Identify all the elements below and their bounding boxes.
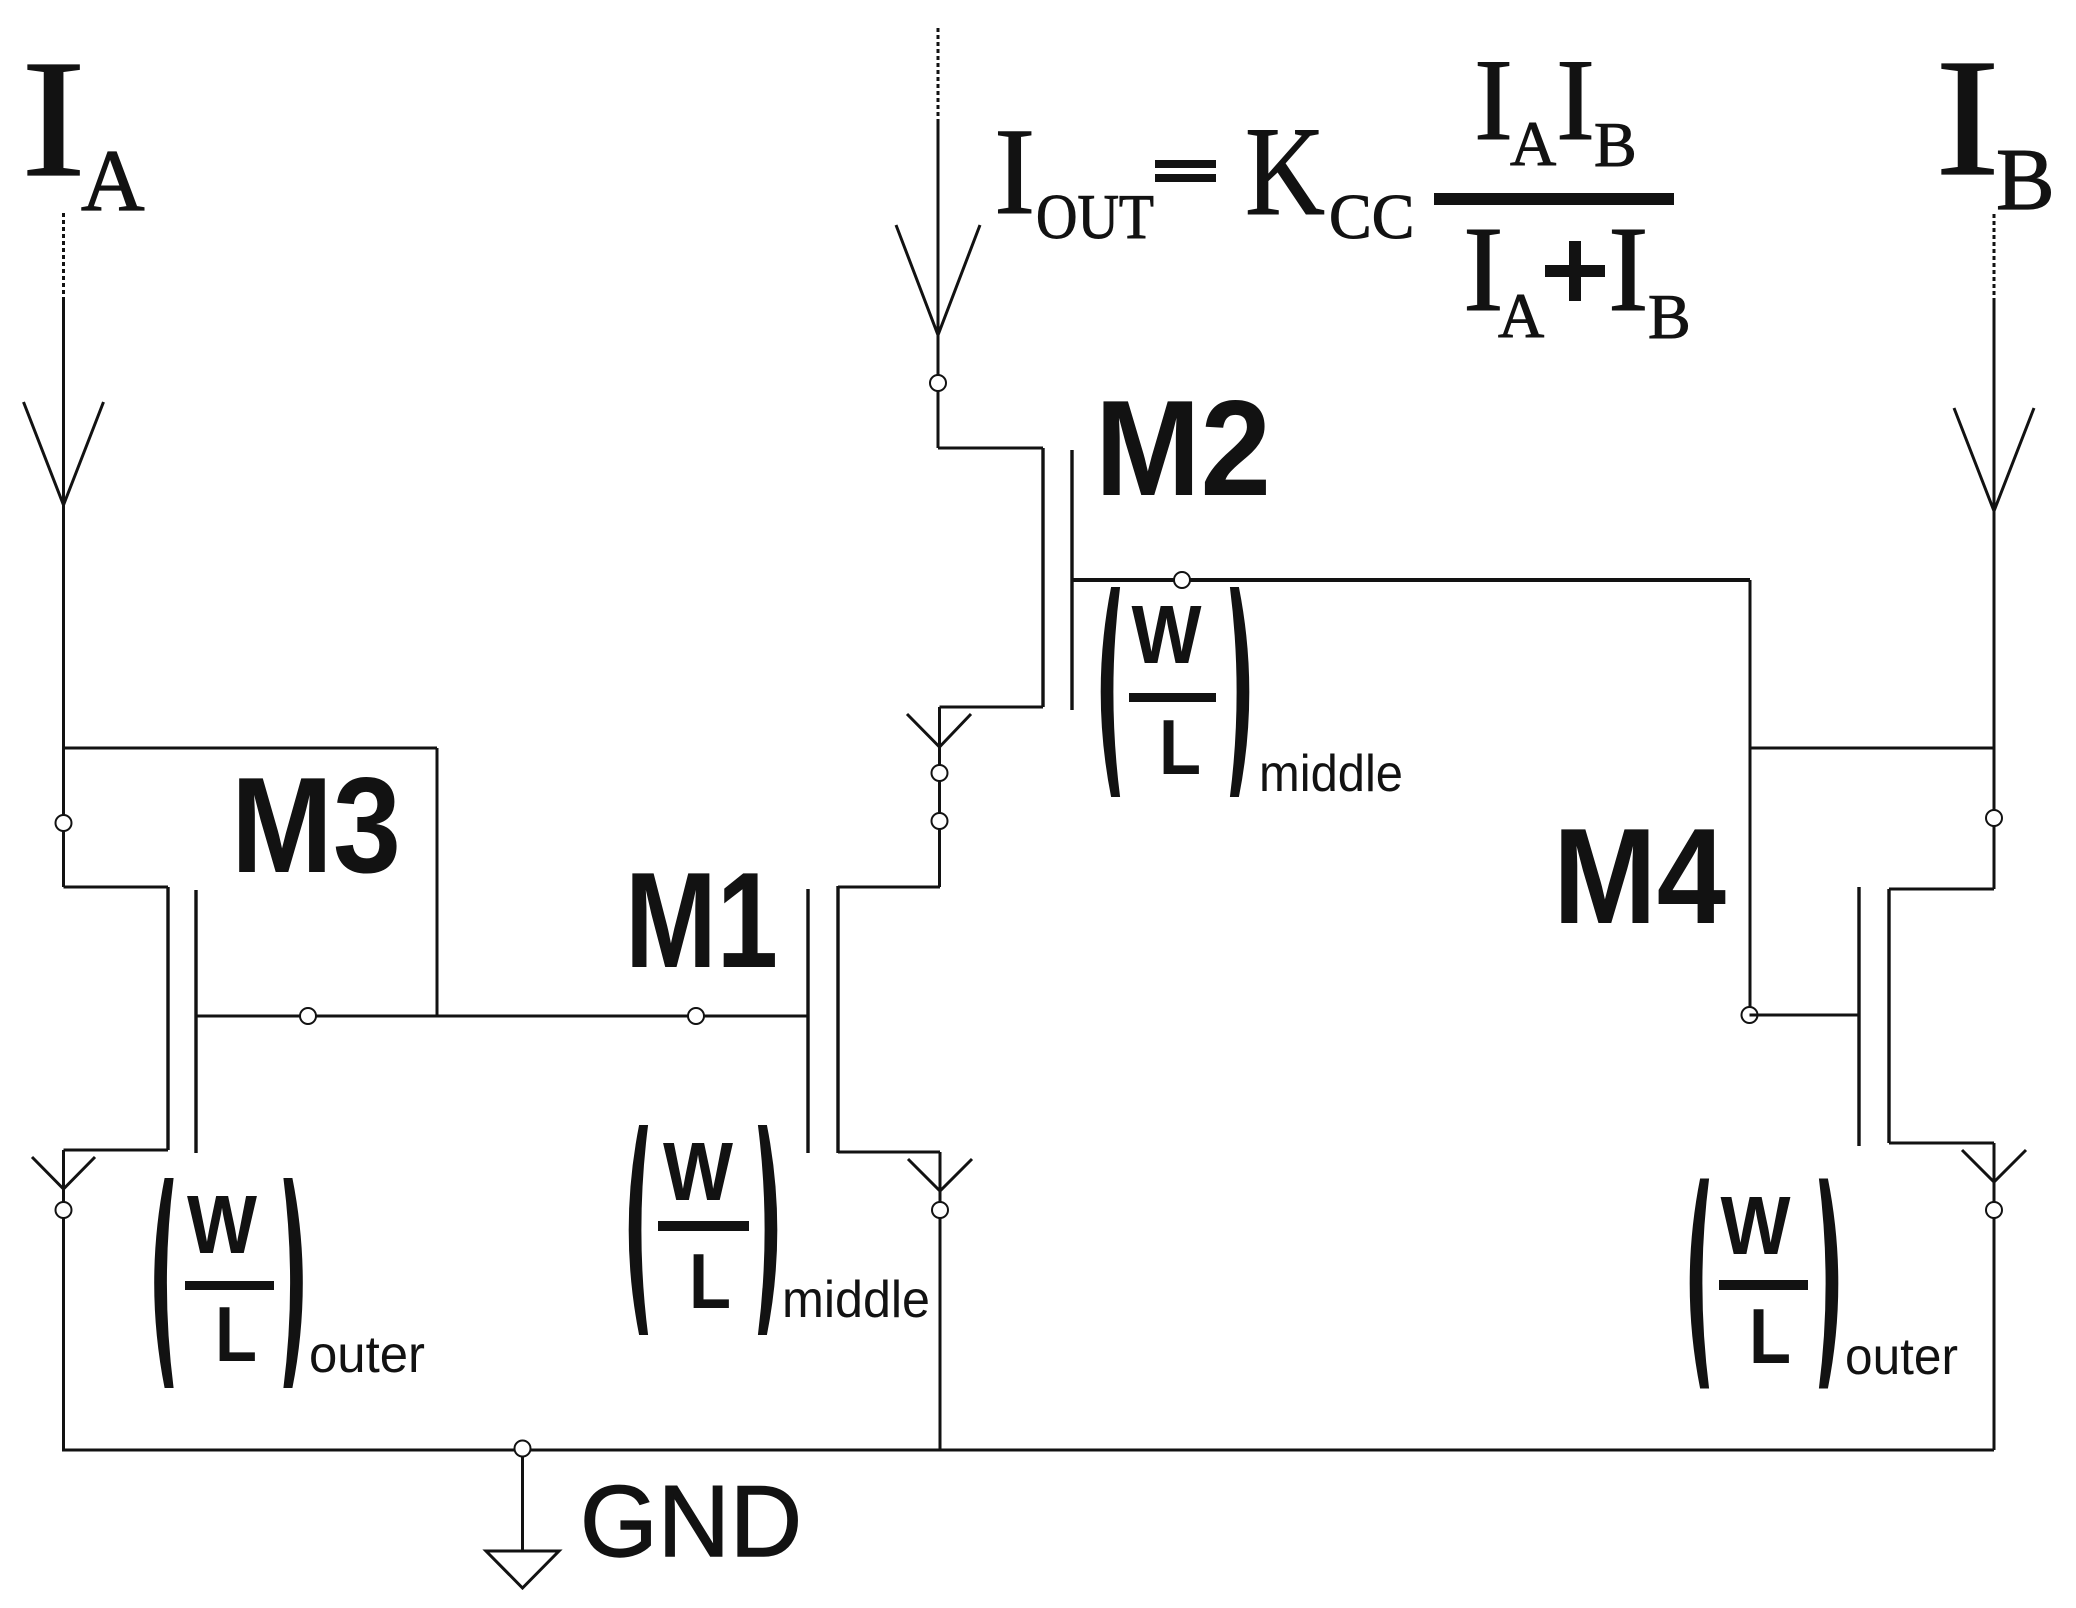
node GND [515, 1441, 531, 1457]
M3 W/L parentheses [154, 1178, 173, 1388]
svg-text:A: A [1510, 108, 1556, 179]
svg-text:L: L [689, 1237, 731, 1325]
svg-text:I: I [1474, 36, 1513, 165]
label I_B [1935, 25, 2055, 229]
node M3 source [56, 1202, 72, 1218]
current arrow I_B [1954, 408, 2034, 511]
M1 W/L parentheses [629, 1125, 648, 1335]
wire I_OUT dotted lead-in [937, 28, 940, 121]
node M4 gate [1742, 1007, 1758, 1023]
svg-text:K: K [1245, 102, 1325, 242]
node gate net right [688, 1008, 704, 1024]
wire M2 source horizontal [940, 706, 1044, 709]
wire ground rail [62, 1449, 1994, 1452]
transistor M4 channel bar [1887, 889, 1890, 1143]
svg-text:L: L [215, 1290, 257, 1378]
svg-text:W: W [1132, 588, 1203, 681]
svg-text:B: B [1648, 281, 1691, 352]
wire M1 source horizontal [838, 1151, 940, 1154]
W/L outer label of M3 [154, 1178, 425, 1388]
arrow M3 source current [32, 1157, 95, 1189]
wire M3 source horizontal [64, 1149, 169, 1152]
M2 W/L parentheses [1101, 587, 1120, 797]
transistor M2 channel bar [1041, 448, 1044, 707]
svg-text:W: W [187, 1178, 258, 1271]
W/L outer label of M4 [1690, 1179, 1958, 1389]
node M2 gate [1174, 572, 1190, 588]
ground triangle [486, 1551, 559, 1588]
wire M2 drain horizontal [938, 447, 1043, 450]
svg-text:W: W [663, 1125, 734, 1218]
node M3 drain [56, 815, 72, 831]
svg-text:I: I [1608, 202, 1649, 337]
formula fraction bar [1434, 193, 1674, 205]
wire M4 gate lead [1750, 1014, 1860, 1017]
svg-text:L: L [1159, 703, 1201, 791]
svg-text:outer: outer [1845, 1328, 1958, 1386]
M4 W/L parentheses [1690, 1179, 1709, 1389]
arrow M4 source current [1962, 1150, 2026, 1182]
label I_A [21, 26, 145, 230]
W/L middle label of M1 [629, 1125, 930, 1335]
wire gate net to I_B node horizontal [1750, 747, 1994, 750]
wire I_B dotted lead-in [1993, 214, 1996, 304]
svg-text:CC: CC [1329, 181, 1414, 252]
wire M3 drain horizontal [64, 886, 169, 889]
transistor M2 gate bar [1070, 450, 1073, 710]
svg-text:L: L [1749, 1292, 1791, 1380]
ground stem [521, 1456, 524, 1551]
svg-text:GND: GND [580, 1466, 802, 1578]
wire M4 source to ground rail [1993, 1143, 1996, 1450]
wire gate net vertical right [1749, 580, 1752, 1015]
formula equals sign [1155, 160, 1216, 168]
wire M3 source to ground rail [62, 1150, 65, 1450]
svg-text:M2: M2 [1095, 372, 1271, 524]
wire feedback vertical [436, 748, 439, 1016]
wire M1 drain horizontal [838, 886, 940, 889]
svg-text:I: I [994, 103, 1035, 240]
svg-text:B: B [1594, 109, 1637, 180]
svg-text:M1: M1 [625, 844, 778, 996]
node gate net left [300, 1008, 316, 1024]
formula I_OUT = K_CC (IA IB)/(IA+IB) [994, 36, 1691, 352]
node M2 source [932, 765, 948, 781]
svg-text:OUT: OUT [1036, 181, 1154, 252]
svg-text:B: B [1996, 132, 2055, 229]
wire I_A dotted lead-in [62, 213, 65, 302]
W/L middle label of M2 [1101, 587, 1403, 803]
svg-text:middle: middle [782, 1271, 930, 1329]
arrow M1 source current [908, 1159, 972, 1191]
transistor M1 gate bar [806, 889, 809, 1153]
node M1 source [932, 1202, 948, 1218]
svg-text:A: A [81, 133, 145, 230]
wire node-A to M3 gate feedback horizontal [64, 747, 438, 750]
node M1 drain [932, 813, 948, 829]
node M4 drain [1986, 810, 2002, 826]
svg-text:outer: outer [309, 1326, 425, 1384]
svg-text:W: W [1721, 1179, 1792, 1272]
wire M1 source to ground rail [939, 1152, 942, 1450]
svg-text:A: A [1498, 280, 1544, 351]
svg-text:I: I [1935, 25, 2000, 211]
wire I_B vertical [1993, 302, 1996, 889]
transistor M3 channel bar [166, 887, 169, 1150]
wire M3-M1 gate net [196, 1015, 808, 1018]
transistor M1 channel bar [836, 886, 839, 1153]
node M4 source [1986, 1202, 2002, 1218]
svg-text:I: I [1556, 36, 1595, 165]
current arrow I_OUT [896, 225, 980, 335]
wire M4 source horizontal [1889, 1142, 1994, 1145]
arrow M2 source current [907, 714, 971, 747]
svg-text:M4: M4 [1553, 800, 1726, 952]
node M2 drain [930, 375, 946, 391]
wire M2 source to M1 drain vertical [938, 707, 941, 887]
svg-text:M3: M3 [231, 749, 401, 901]
wire I_OUT vertical [937, 121, 940, 448]
transistor M3 gate bar [194, 890, 197, 1153]
wire M4 drain horizontal [1889, 888, 1994, 891]
svg-text:I: I [21, 26, 86, 212]
svg-text:middle: middle [1259, 745, 1403, 803]
wire M2 gate net horizontal [1072, 578, 1750, 582]
wire I_A vertical [62, 300, 65, 887]
current arrow I_A [24, 402, 104, 505]
transistor M4 gate bar [1857, 887, 1860, 1146]
